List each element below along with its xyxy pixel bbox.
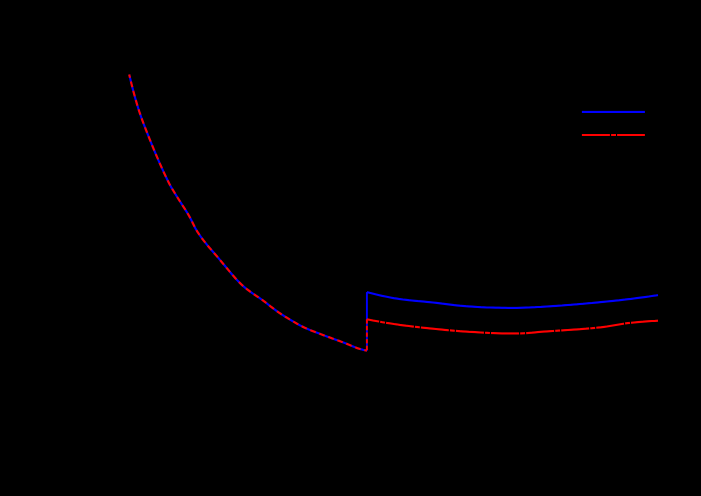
blue solid curve: vertical jump at x=366.9	[366, 292, 368, 351]
red dashed curve: after jump	[367, 319, 658, 333]
legend red dashed line	[582, 134, 645, 136]
red dashed overlay on decay segment	[129, 75, 367, 351]
blue solid curve: decay segment (under red dashes)	[129, 75, 367, 351]
red dashed overlay on vertical jump	[366, 319, 368, 350]
blue solid curve: after jump	[367, 292, 658, 308]
legend blue solid line	[582, 111, 645, 113]
